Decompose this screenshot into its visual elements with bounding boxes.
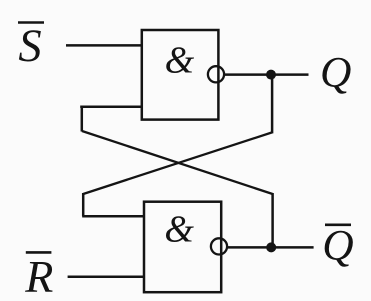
svg-text:S: S: [18, 21, 41, 72]
overline of R: [26, 251, 52, 254]
wire diagonal Q feedback to U2 (down-right): [82, 131, 273, 194]
wire Q output: [224, 73, 308, 76]
svg-text:&: &: [164, 209, 194, 251]
wire R input: [68, 275, 145, 278]
svg-text:&: &: [165, 39, 195, 81]
wire S input: [66, 44, 143, 47]
nand gate U1: [142, 30, 219, 120]
wire from Q junction down: [271, 75, 274, 134]
wire left upper vertical: [81, 106, 84, 132]
wire feedback into U2 input: [82, 215, 144, 218]
wire left lower vertical: [82, 193, 85, 216]
svg-text:R: R: [24, 251, 53, 301]
junction dot bottom: [266, 242, 276, 252]
nand gate U2: [144, 202, 221, 293]
overline of Q-bar: [325, 224, 351, 227]
junction dot top: [266, 70, 276, 80]
wire U1 lower input horizontal: [80, 106, 143, 109]
wire Q-bar output: [227, 246, 313, 249]
wire diagonal Q-bar feedback to U1 (down-left): [83, 132, 272, 194]
bubble of U2: [211, 238, 227, 254]
svg-text:Q: Q: [320, 49, 351, 97]
svg-text:Q: Q: [322, 221, 353, 269]
overline of S: [18, 21, 44, 24]
bubble of U1: [208, 66, 224, 82]
wire right lower vertical into Q-bar junction: [271, 193, 274, 248]
